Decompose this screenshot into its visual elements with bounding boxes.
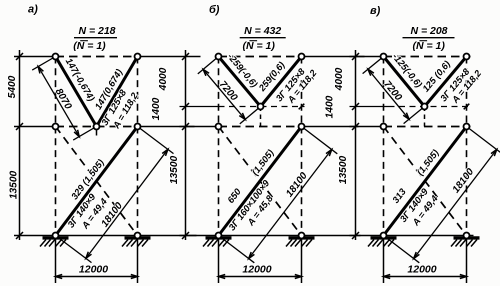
V brace right member <box>261 57 302 107</box>
top chord <box>219 56 302 58</box>
V brace right member <box>425 57 467 107</box>
node circles <box>381 54 387 60</box>
svg-text:N = 208: N = 208 <box>410 25 447 37</box>
svg-text:4000: 4000 <box>334 67 345 91</box>
svg-text:12000: 12000 <box>242 264 271 276</box>
dashed verticals <box>383 57 385 127</box>
bottom ground line <box>14 235 197 237</box>
middle chord <box>56 126 138 128</box>
svg-text:13500: 13500 <box>169 156 180 185</box>
middle chord <box>384 126 467 128</box>
svg-text:N = 432: N = 432 <box>244 25 281 37</box>
hinged support left <box>371 236 397 239</box>
svg-text:12000: 12000 <box>79 264 108 276</box>
top chord <box>56 56 138 58</box>
dimension 18100 <box>56 236 92 263</box>
dimension 18100 <box>219 236 255 263</box>
dimension 7200 <box>363 57 384 74</box>
V brace left member <box>219 57 261 107</box>
V-bottom level extension line <box>180 106 219 108</box>
dashed verticals <box>218 57 220 127</box>
dimension 8070 <box>32 57 55 71</box>
svg-text:б): б) <box>209 4 220 16</box>
svg-text:в): в) <box>370 5 381 17</box>
V brace left member <box>384 57 425 107</box>
node circles <box>216 54 222 60</box>
hinged support left <box>43 236 69 239</box>
svg-text:(N = 1): (N = 1) <box>413 40 446 52</box>
svg-text:а): а) <box>28 4 38 16</box>
lower panel dashed diagonal <box>219 127 302 236</box>
V-bottom level extension line <box>350 106 389 108</box>
bottom ground line <box>180 235 361 237</box>
svg-text:1400: 1400 <box>151 97 162 120</box>
svg-text:12000: 12000 <box>407 264 436 276</box>
dimension 12000 <box>383 239 385 284</box>
dimension 18100 <box>384 236 420 263</box>
hinged support right <box>454 236 480 239</box>
svg-text:4000: 4000 <box>158 67 169 91</box>
top chord <box>384 56 467 58</box>
svg-text:N = 218: N = 218 <box>78 25 115 37</box>
svg-text:5400: 5400 <box>7 75 18 98</box>
dashed verticals <box>55 57 57 127</box>
middle chord <box>219 126 302 128</box>
svg-text:13500: 13500 <box>338 156 349 185</box>
dimension 12000 <box>218 239 220 284</box>
V brace left member <box>56 57 97 127</box>
hinged support left <box>206 236 232 239</box>
dimension 12000 <box>55 239 57 284</box>
svg-text:(N = 1): (N = 1) <box>73 40 106 52</box>
svg-text:13500: 13500 <box>9 171 20 200</box>
lower panel main diagonal <box>56 127 138 236</box>
V brace right member <box>97 57 138 127</box>
node circles <box>53 54 59 60</box>
bottom ground line <box>350 235 474 237</box>
svg-text:1400: 1400 <box>325 95 336 118</box>
dimension 7200 <box>198 57 219 74</box>
vertical dimension line <box>185 50 187 240</box>
hinged support right <box>125 236 151 239</box>
lower panel dashed diagonal <box>384 127 467 236</box>
vertical dimension line <box>19 50 21 240</box>
vertical dimension line <box>355 50 357 240</box>
svg-text:(N = 1): (N = 1) <box>243 40 276 52</box>
hinged support right <box>289 236 315 239</box>
lower panel main diagonal <box>384 127 467 236</box>
lower panel main diagonal <box>219 127 302 236</box>
lower panel dashed diagonal <box>56 127 138 236</box>
